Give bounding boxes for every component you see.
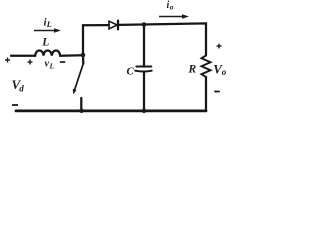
capacitor C top lead wire <box>143 25 145 67</box>
bottom rail wire <box>16 110 206 113</box>
node A junction dot <box>81 53 86 58</box>
capacitor C bottom lead wire <box>143 72 145 111</box>
minus sign Vd <box>12 104 18 106</box>
svg-text:o: o <box>170 2 174 11</box>
plus sign Vo <box>217 44 222 49</box>
plus sign vL <box>28 60 33 65</box>
switch bottom junction dot <box>79 109 84 114</box>
current arrow io <box>159 14 189 18</box>
switch blade <box>74 64 83 92</box>
minus sign Vo <box>214 91 220 93</box>
inductor L <box>35 51 60 56</box>
capacitor bottom junction dot <box>142 109 147 114</box>
current arrow iL <box>34 28 61 32</box>
wire riser node A to top rail <box>83 25 109 55</box>
switch bottom stub <box>80 98 82 111</box>
svg-text:C: C <box>127 66 135 78</box>
capacitor C top plate <box>136 66 151 68</box>
svg-text:d: d <box>19 84 24 94</box>
svg-text:L: L <box>41 36 49 48</box>
minus sign vL <box>60 61 65 63</box>
plus sign Vd <box>5 58 10 63</box>
switch blade arrowhead <box>73 89 77 95</box>
svg-text:L: L <box>49 62 55 71</box>
wire left input to inductor <box>11 55 35 57</box>
wire inductor to node A <box>60 54 83 57</box>
wire resistor to bottom rail <box>205 77 207 111</box>
wire diode to node B and down right side <box>118 23 206 55</box>
resistor R zigzag <box>202 56 211 78</box>
svg-text:L: L <box>46 19 52 29</box>
svg-text:o: o <box>222 67 227 77</box>
switch top lead <box>82 55 85 64</box>
diode D1 triangle <box>109 21 117 29</box>
diode D1 cathode bar <box>117 21 119 30</box>
capacitor C bottom plate <box>135 70 152 73</box>
svg-text:R: R <box>188 64 197 76</box>
node B junction dot <box>142 22 147 27</box>
